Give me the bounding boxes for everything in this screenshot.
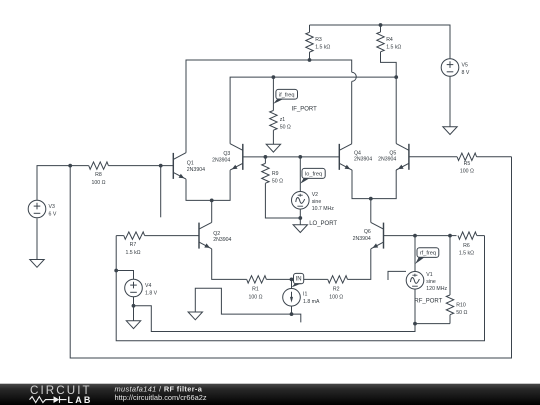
svg-text:z1: z1 [280,117,286,123]
svg-text:LAB: LAB [68,395,93,405]
svg-text:100 Ω: 100 Ω [249,294,263,300]
svg-text:Q4: Q4 [354,151,361,157]
svg-text:R9: R9 [272,171,279,177]
svg-text:1.8 mA: 1.8 mA [303,299,320,305]
svg-text:2N3904: 2N3904 [378,157,396,163]
svg-text:R4: R4 [386,37,393,43]
svg-text:RF_PORT: RF_PORT [414,299,442,305]
svg-text:120 MHz: 120 MHz [426,286,447,292]
svg-text:2N3904: 2N3904 [354,157,372,163]
svg-text:2N3904: 2N3904 [213,237,231,243]
svg-text:IF_PORT: IF_PORT [292,106,318,112]
svg-text:V5: V5 [462,63,468,69]
svg-text:R7: R7 [130,242,137,248]
svg-text:1.8 V: 1.8 V [145,291,158,297]
svg-text:V4: V4 [145,283,151,289]
svg-text:R3: R3 [315,37,322,43]
svg-text:V2: V2 [312,192,318,198]
svg-text:10.7 MHz: 10.7 MHz [312,206,335,212]
svg-text:100 Ω: 100 Ω [329,294,343,300]
svg-text:sine: sine [426,279,436,285]
svg-text:LO_PORT: LO_PORT [309,221,337,227]
svg-text:IN: IN [296,277,302,283]
svg-text:Q3: Q3 [223,151,230,157]
svg-text:1.5 kΩ: 1.5 kΩ [386,45,401,51]
svg-text:Q2: Q2 [213,231,220,237]
svg-text:R8: R8 [95,172,102,178]
svg-text:http://circuitlab.com/cr66a2z: http://circuitlab.com/cr66a2z [115,393,207,402]
svg-text:R2: R2 [333,287,340,293]
svg-text:6 V: 6 V [49,212,57,218]
svg-text:2N3904: 2N3904 [212,157,230,163]
svg-text:V1: V1 [426,272,432,278]
svg-text:1.5 kΩ: 1.5 kΩ [125,250,140,256]
svg-text:100 Ω: 100 Ω [460,169,474,175]
svg-text:100 Ω: 100 Ω [92,180,106,186]
svg-text:2N3904: 2N3904 [353,236,371,242]
svg-text:sine: sine [312,199,322,205]
svg-text:rf_freq: rf_freq [420,251,436,257]
svg-text:V3: V3 [49,204,55,210]
svg-text:I1: I1 [303,292,307,298]
svg-text:8 V: 8 V [462,70,470,76]
svg-text:if_freq: if_freq [279,92,295,98]
svg-text:R5: R5 [464,161,471,167]
svg-text:R6: R6 [463,243,470,249]
svg-text:Q1: Q1 [187,160,194,166]
svg-text:Q5: Q5 [389,151,396,157]
svg-text:50 Ω: 50 Ω [272,179,283,185]
svg-text:2N3904: 2N3904 [187,167,205,173]
svg-text:lo_freq: lo_freq [305,171,322,177]
svg-text:R10: R10 [456,302,466,308]
svg-text:R1: R1 [252,287,259,293]
svg-text:Q6: Q6 [364,229,371,235]
svg-text:1.5 kΩ: 1.5 kΩ [315,45,330,51]
svg-text:50 Ω: 50 Ω [456,310,467,316]
svg-text:50 Ω: 50 Ω [280,124,291,130]
svg-text:1.5 kΩ: 1.5 kΩ [459,251,474,257]
